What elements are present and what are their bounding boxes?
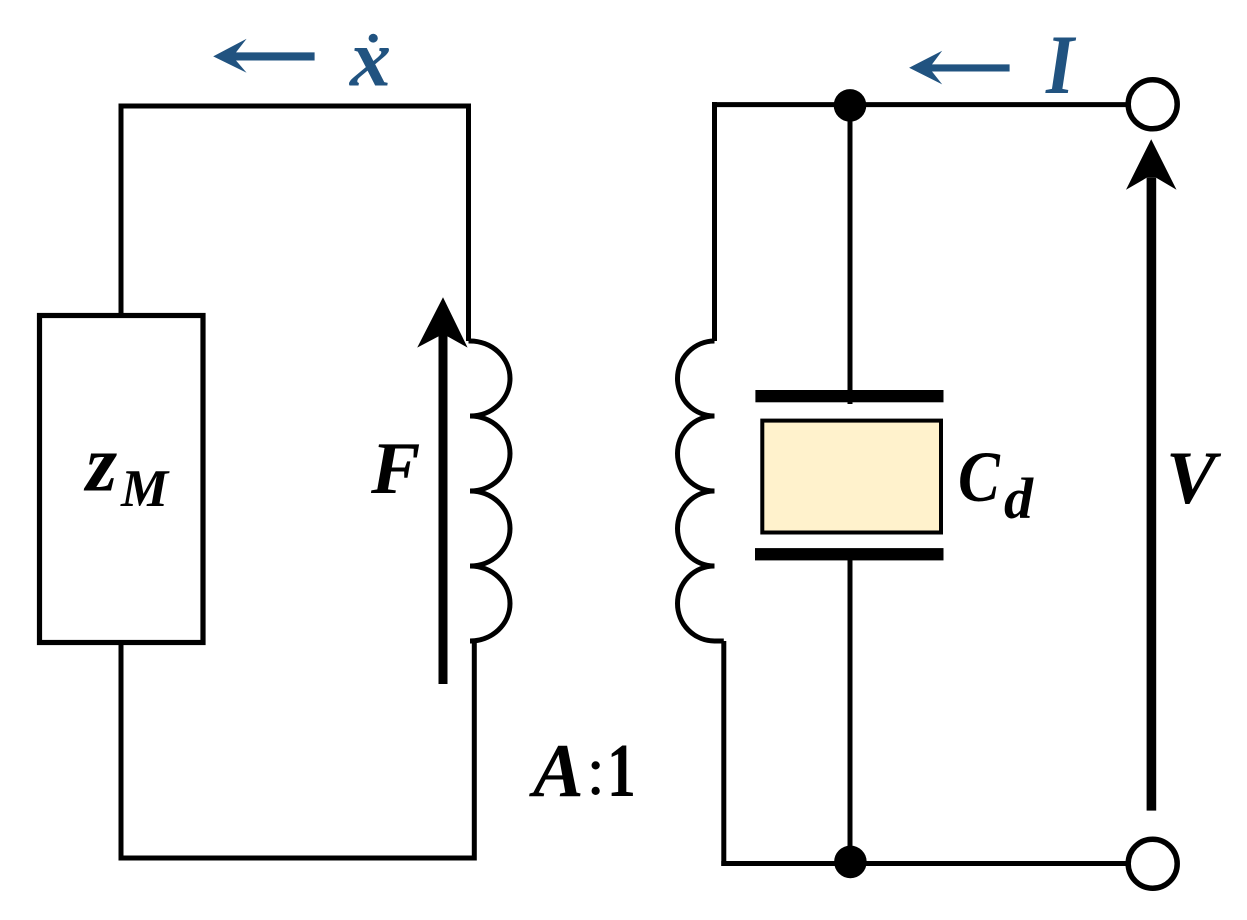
svg-text:M: M <box>120 460 170 518</box>
wire: right loop top <box>715 102 1153 107</box>
svg-text:x: x <box>349 13 391 104</box>
svg-text::: : <box>586 733 605 810</box>
wire: capacitor bottom lead <box>848 558 853 862</box>
wire: right loop left vertical upper <box>712 102 717 341</box>
node junction dot bottom <box>834 846 867 879</box>
inductor L1 primary coil <box>469 341 511 641</box>
wire: right loop left vertical lower <box>721 641 726 866</box>
svg-text:1: 1 <box>607 728 636 812</box>
wire: left loop left vertical lower <box>119 643 124 861</box>
wire: left loop top <box>121 104 469 109</box>
svg-text:d: d <box>1004 466 1034 531</box>
svg-text:z: z <box>83 421 117 509</box>
wire: capacitor top lead <box>848 105 853 404</box>
svg-text:C: C <box>958 437 1001 517</box>
node junction dot top <box>834 89 867 122</box>
capacitor Cd dielectric box <box>762 421 941 533</box>
impedance box Z_M <box>40 316 204 643</box>
label z_M <box>83 421 170 519</box>
wire: left loop bottom <box>119 856 475 861</box>
svg-text:V: V <box>1166 437 1222 520</box>
capacitor Cd bottom plate <box>755 548 944 560</box>
svg-text:F: F <box>370 428 420 510</box>
wire: left loop left vertical upper <box>119 104 124 316</box>
voltage arrow V <box>1126 139 1177 810</box>
velocity arrow x-dot (blue) <box>213 39 314 73</box>
inductor L2 secondary coil <box>678 341 724 641</box>
force arrow F <box>417 297 467 684</box>
capacitor Cd top plate <box>755 390 943 402</box>
wire: right loop bottom <box>721 861 1152 866</box>
label I (blue) <box>1045 19 1076 113</box>
wire: left loop right vertical upper <box>466 104 471 342</box>
terminal circle bottom <box>1128 839 1177 888</box>
label V <box>1166 437 1222 520</box>
wire: left loop right vertical lower <box>472 641 477 861</box>
transformer ratio label A:1 <box>529 728 636 813</box>
current arrow I (blue) <box>909 51 1010 85</box>
label Cd <box>958 437 1034 531</box>
terminal circle top <box>1128 80 1177 129</box>
label F <box>370 428 420 510</box>
svg-text:A: A <box>529 729 584 813</box>
svg-text:I: I <box>1045 19 1076 113</box>
label x-dot (blue) <box>349 13 391 104</box>
